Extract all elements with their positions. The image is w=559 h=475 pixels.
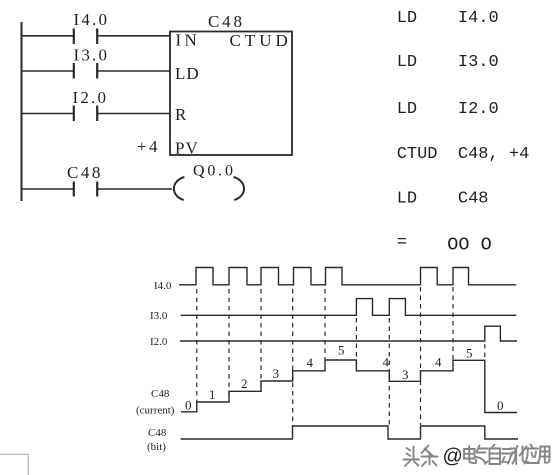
waveform I3.0 <box>181 299 517 316</box>
svg-text:C48: C48 <box>151 388 170 400</box>
svg-text:Q0.0: Q0.0 <box>193 163 236 180</box>
svg-text:I4.0: I4.0 <box>154 280 172 292</box>
svg-text:LD I3.0: LD I3.0 <box>397 53 499 72</box>
dashed line d5 <box>324 289 326 360</box>
svg-text:C48: C48 <box>208 12 245 31</box>
wire rung4 left <box>21 188 73 190</box>
svg-text:I3.0: I3.0 <box>74 46 110 65</box>
svg-text:I4.0: I4.0 <box>74 10 110 29</box>
watermark toutiao <box>404 445 550 467</box>
wire rung3 to R <box>98 113 170 115</box>
svg-text:LD I2.0: LD I2.0 <box>397 100 499 119</box>
svg-text:4: 4 <box>307 355 314 370</box>
wire rung3 left <box>21 113 73 115</box>
svg-text:5: 5 <box>338 343 345 358</box>
dashed line d3 <box>260 289 262 391</box>
svg-text:IN: IN <box>176 31 201 50</box>
svg-text:CTUD C48, +4: CTUD C48, +4 <box>397 145 530 164</box>
svg-text:LD C48: LD C48 <box>397 190 489 209</box>
svg-text:0: 0 <box>497 398 504 413</box>
svg-text:+4: +4 <box>137 137 160 156</box>
wire rung1 to IN <box>98 35 170 37</box>
contact I2.0 <box>73 88 109 121</box>
svg-text:CTUD: CTUD <box>230 31 292 50</box>
page artifact corner <box>0 454 28 475</box>
wire rung4 to coil <box>98 188 172 190</box>
wire rung2 to LD <box>98 70 170 72</box>
svg-text:3: 3 <box>402 367 409 382</box>
wire rung2 left <box>21 70 73 72</box>
dashed line d6 <box>355 318 357 371</box>
svg-text:C48: C48 <box>148 427 167 439</box>
svg-text:LD: LD <box>175 64 200 83</box>
svg-text:=: = <box>397 234 407 253</box>
svg-text:4: 4 <box>383 355 390 370</box>
svg-text:1: 1 <box>209 387 216 402</box>
contact I4.0 <box>74 10 110 44</box>
dashed line d4 <box>292 289 294 426</box>
waveform I2.0 <box>180 326 517 341</box>
dashed line d8 <box>420 287 422 425</box>
svg-text:0: 0 <box>185 398 192 413</box>
label C48 current <box>136 388 175 417</box>
counter box C48 CTUD <box>170 12 292 158</box>
contact C48 <box>67 163 103 197</box>
svg-text:(current): (current) <box>136 405 175 417</box>
dashed line d9 <box>452 287 454 361</box>
waveform I4.0 <box>179 268 516 285</box>
dashed line d1 <box>196 289 198 412</box>
svg-text:R: R <box>175 105 187 124</box>
label C48 bit <box>147 427 167 453</box>
dashed line d10 <box>484 344 486 361</box>
svg-text:3: 3 <box>273 366 280 381</box>
svg-text:@: @ <box>443 446 463 468</box>
waveform C48 current staircase <box>181 360 517 413</box>
waveform C48 bit <box>181 426 518 439</box>
wire rung1 left <box>21 35 73 37</box>
svg-text:I2.0: I2.0 <box>73 88 109 107</box>
dashed line d2 <box>228 289 230 402</box>
svg-text:C48: C48 <box>67 163 103 182</box>
svg-text:4: 4 <box>435 355 442 370</box>
svg-text:PV: PV <box>175 139 199 158</box>
contact I3.0 <box>74 46 110 79</box>
instruction list STL <box>397 9 530 256</box>
svg-text:OO O: OO O <box>447 235 491 256</box>
svg-text:I3.0: I3.0 <box>150 310 168 322</box>
dashed line d7 <box>388 318 390 425</box>
svg-text:5: 5 <box>466 346 473 361</box>
svg-text:LD I4.0: LD I4.0 <box>397 9 499 28</box>
left power rail <box>21 22 23 201</box>
svg-text:(bit): (bit) <box>147 441 166 453</box>
svg-text:I2.0: I2.0 <box>150 336 168 348</box>
svg-text:2: 2 <box>241 376 248 391</box>
coil Q0.0 <box>174 163 244 201</box>
